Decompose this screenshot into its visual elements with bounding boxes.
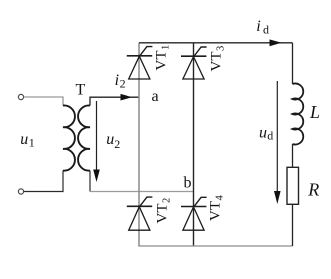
svg-text:VT: VT xyxy=(209,52,225,72)
transformer T primary winding xyxy=(63,105,75,170)
bridge right column wire xyxy=(193,43,195,246)
svg-text:VT: VT xyxy=(155,204,171,224)
wire L to R xyxy=(292,144,294,167)
svg-text:b: b xyxy=(184,175,192,192)
thyristor VT1 xyxy=(127,47,153,79)
label VT3 (rotated) xyxy=(209,46,227,72)
thyristor VT3 xyxy=(181,47,207,79)
wire secondary bottom xyxy=(89,171,91,192)
u2 voltage arrow xyxy=(96,101,98,171)
i2 current arrow xyxy=(121,94,133,101)
top rail wire xyxy=(139,42,293,44)
id current arrow on top rail xyxy=(270,39,282,46)
transformer T secondary winding xyxy=(78,105,90,170)
wire secondary top to node a xyxy=(90,97,139,105)
resistor R xyxy=(287,167,299,204)
svg-text:VT: VT xyxy=(154,51,170,71)
ud voltage arrow xyxy=(276,81,278,192)
svg-text:u: u xyxy=(259,125,267,142)
thyristor VT4 xyxy=(181,197,207,230)
svg-text:u: u xyxy=(20,131,28,148)
inductor L xyxy=(293,84,304,145)
wire R to bottom rail xyxy=(292,204,294,246)
svg-text:R: R xyxy=(307,179,319,199)
label VT1 (rotated) xyxy=(154,45,172,71)
svg-text:3: 3 xyxy=(216,46,227,51)
svg-text:u: u xyxy=(106,131,114,148)
svg-text:L: L xyxy=(309,102,320,122)
svg-text:2: 2 xyxy=(162,198,173,203)
svg-text:T: T xyxy=(76,82,86,99)
svg-text:i: i xyxy=(256,18,260,35)
right branch wire (top) xyxy=(292,43,294,84)
svg-text:1: 1 xyxy=(161,45,172,50)
terminal (top-left input) xyxy=(18,94,23,99)
wire transformer bottom to node b xyxy=(90,191,194,193)
wire bottom terminal to transformer primary xyxy=(24,171,63,192)
svg-text:d: d xyxy=(267,129,273,143)
svg-text:d: d xyxy=(263,22,269,36)
svg-text:2: 2 xyxy=(120,77,126,91)
svg-text:4: 4 xyxy=(215,195,226,201)
svg-text:i: i xyxy=(115,72,119,89)
bridge left column wire xyxy=(138,43,140,246)
svg-text:a: a xyxy=(152,88,159,105)
svg-text:1: 1 xyxy=(29,136,35,150)
label VT4 (rotated) xyxy=(208,195,226,222)
bottom rail wire xyxy=(138,245,292,247)
terminal (bottom-left input) xyxy=(18,189,23,194)
wire top terminal to transformer primary xyxy=(24,97,63,106)
thyristor VT2 xyxy=(127,197,153,230)
label VT2 (rotated) xyxy=(155,198,173,224)
svg-text:VT: VT xyxy=(208,201,224,221)
svg-text:2: 2 xyxy=(114,137,120,151)
